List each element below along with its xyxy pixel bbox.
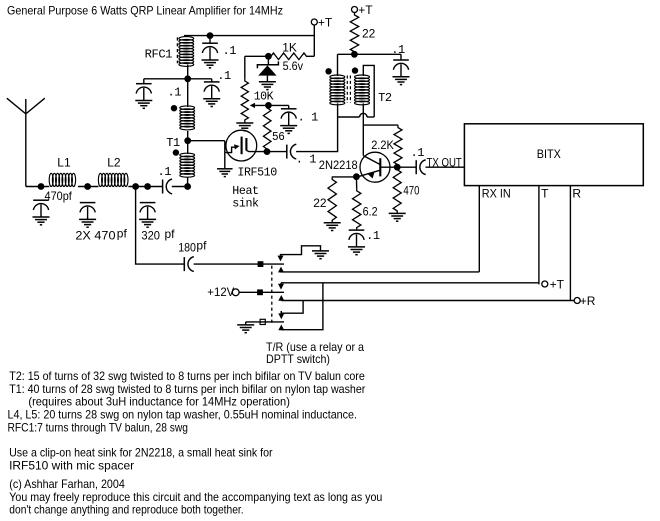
relay pole3 up contact: [278, 311, 284, 319]
terminal +T relay: [542, 281, 548, 287]
svg-text:22: 22: [313, 196, 327, 210]
label +T 2: [358, 3, 373, 17]
node emitter: [353, 173, 360, 180]
node J3: [132, 183, 139, 190]
wire drain to cap: [267, 151, 287, 153]
svg-text:R: R: [572, 187, 581, 201]
label T/R: [266, 340, 364, 366]
ground 22 emitter: [324, 223, 341, 231]
label RX IN: [482, 187, 511, 201]
label L1: [57, 155, 71, 169]
svg-text:+R: +R: [580, 294, 596, 308]
label +T relay: [550, 278, 565, 292]
svg-text:T2: 15 of turns of 32 swg twis: T2: 15 of turns of 32 swg twisted to 8 t…: [9, 369, 365, 383]
node zener: [265, 53, 272, 60]
svg-text:BITX: BITX: [537, 147, 561, 161]
svg-text:sink: sink: [232, 197, 259, 211]
wire RFC1 to T1: [187, 79, 189, 107]
relay pole1 up contact: [278, 246, 321, 262]
svg-text:470pf: 470pf: [45, 189, 73, 203]
capacitor .1 emitter: [348, 230, 365, 255]
label 1K: [282, 41, 297, 55]
capacitor 320pf: [139, 203, 156, 228]
label 2N2218: [319, 158, 358, 172]
wire net +R: [281, 300, 574, 302]
resistor 2.2K: [394, 125, 402, 167]
svg-text:(requires about 3uH inductance: (requires about 3uH inductance for 14MHz…: [28, 395, 290, 409]
node T1 center: [184, 137, 191, 144]
resistor 56: [263, 105, 271, 151]
ground IRF510 source: [217, 169, 233, 177]
heat sink note: [9, 446, 273, 473]
label .1 T1 input: [158, 165, 172, 179]
label 320 pf: [141, 227, 175, 243]
wire base to cap: [380, 166, 416, 168]
label 180pf: [178, 239, 207, 255]
label RFC1: [145, 48, 173, 62]
wire T2 right top loop: [363, 65, 374, 117]
svg-text:L4, L5: 20 turns 28 swg on nyl: L4, L5: 20 turns 28 swg on nylon tap was…: [8, 408, 358, 422]
wire +12V: [239, 291, 284, 293]
node IRF510 drain: [264, 148, 271, 155]
wire 180pf to relay: [194, 263, 284, 265]
resistor 22 emitter: [328, 177, 336, 223]
label +T 1: [318, 15, 333, 29]
T2 core dashed lines: [347, 76, 350, 104]
node wiper: [265, 102, 272, 109]
wire pole3 to +T link: [281, 283, 323, 330]
svg-text:. 1: . 1: [296, 152, 317, 166]
capacitor .1 bias bypass: [280, 109, 297, 134]
resistor 1K: [268, 53, 314, 60]
T2 phasing dot right: [352, 67, 358, 73]
relay pole2 up contact: [278, 283, 284, 290]
svg-text:.1: .1: [223, 44, 237, 58]
wire bias rail: [144, 78, 212, 80]
svg-text:L2: L2: [107, 155, 121, 169]
terminal +12V: [232, 289, 239, 296]
wire net +T: [281, 282, 539, 284]
T1 phasing dot bottom: [173, 149, 179, 155]
T2 right winding: [355, 75, 370, 156]
svg-text:L1: L1: [57, 155, 71, 169]
svg-text:T1: 40 turns of 28 swg twisted: T1: 40 turns of 28 swg twisted to 8 turn…: [9, 382, 365, 396]
label Heat sink: [232, 184, 259, 211]
potentiometer 10K: [241, 78, 248, 122]
svg-text:.1: .1: [168, 86, 182, 100]
svg-text:RX IN: RX IN: [482, 187, 511, 201]
resistor 470: [393, 167, 401, 213]
capacitor .1 T1 input: [163, 179, 173, 194]
svg-text:RFC1: RFC1: [145, 48, 173, 62]
label .1 bias bypass: [298, 111, 319, 125]
capacitor 180pf: [184, 257, 194, 272]
svg-text:DPTT switch): DPTT switch): [266, 352, 330, 366]
label 22 supply: [362, 27, 376, 41]
inductor L1: [49, 173, 75, 186]
label L2: [107, 155, 121, 169]
pin T: [538, 186, 540, 285]
capacitor .1 rail bypass: [202, 36, 219, 68]
label 2X 470pf: [75, 226, 127, 242]
label T: [541, 187, 549, 201]
label 5.6v: [283, 59, 303, 73]
svg-text:2X 470: 2X 470: [75, 229, 115, 243]
svg-text:.1: .1: [158, 165, 172, 179]
square node pole1: [258, 261, 264, 267]
ground pole1: [312, 251, 329, 259]
terminal +R: [574, 298, 580, 304]
node RFC1 bottom: [184, 75, 191, 82]
label BITX: [537, 147, 561, 161]
label 22 emitter: [313, 196, 327, 210]
notes text: [8, 369, 366, 435]
svg-text:T1: T1: [166, 136, 180, 150]
label .1 rail bypass: [223, 44, 237, 58]
wire wiper to cap: [268, 105, 288, 108]
svg-text:470: 470: [403, 184, 419, 198]
svg-text:1K: 1K: [282, 41, 297, 55]
wire RFC1 top rail: [184, 35, 314, 37]
wire collector to 2.2K: [363, 124, 398, 126]
svg-text:RFC1:7 turns through TV balun,: RFC1:7 turns through TV balun, 28 swg: [8, 421, 189, 435]
node J1: [38, 183, 45, 190]
node 22 bottom: [351, 51, 358, 58]
label 10K: [254, 89, 275, 103]
square node pole3 open: [260, 319, 265, 324]
svg-text:180: 180: [178, 241, 196, 255]
antenna: [7, 98, 45, 186]
svg-text:(c) Ashhar Farhan, 2004: (c) Ashhar Farhan, 2004: [9, 477, 125, 491]
transistor Q1 IRF510: [225, 130, 267, 168]
node T1 bottom: [184, 183, 191, 190]
node J4: [144, 183, 151, 190]
node J2: [84, 183, 91, 190]
ground pole3: [237, 322, 254, 333]
svg-text:10K: 10K: [254, 89, 275, 103]
wire pole3: [246, 321, 284, 323]
relay pole2 down contact: [278, 295, 284, 301]
T1 top winding: [180, 106, 195, 141]
svg-text:5.6v: 5.6v: [283, 59, 303, 73]
label .1 left bypass: [168, 86, 182, 100]
capacitor 2X470pf: [79, 203, 96, 228]
label 6.2: [363, 205, 378, 219]
label 56: [272, 130, 285, 144]
wire emitter to 22: [332, 176, 357, 178]
svg-text:+12V: +12V: [207, 285, 234, 299]
label R: [572, 187, 581, 201]
label T1: [166, 136, 180, 150]
svg-text:General Purpose 6 Watts QRP Li: General Purpose 6 Watts QRP Linear Ampli…: [7, 4, 283, 18]
label .1 T2 bypass: [391, 43, 405, 57]
svg-text:.1: .1: [366, 229, 380, 243]
wire L1 to L2: [78, 186, 99, 188]
svg-text:T: T: [541, 187, 549, 201]
wire T1 to IRF510 gate: [188, 140, 225, 142]
svg-text:pf: pf: [117, 226, 128, 240]
inductor RFC1: [179, 37, 194, 79]
10K wiper arrow: [250, 103, 269, 108]
label .1 right bypass: [217, 69, 231, 83]
svg-text:56: 56: [272, 130, 285, 144]
wire cap to T2 tap: [296, 117, 338, 152]
svg-text:.1: .1: [411, 146, 425, 160]
resistor 6.2: [353, 177, 361, 230]
T2 left winding: [330, 75, 345, 117]
label IRF510: [237, 166, 277, 180]
label 2.2K: [371, 138, 394, 152]
svg-text:pf: pf: [165, 227, 176, 241]
svg-text:don't change anything and repr: don't change anything and reproduce both…: [9, 503, 243, 517]
svg-text:.1: .1: [391, 43, 405, 57]
ground 10K: [236, 123, 253, 131]
title text: [7, 4, 283, 18]
wire cap to BITX: [426, 166, 465, 168]
svg-text:pf: pf: [196, 239, 207, 253]
label +12V: [207, 285, 234, 299]
svg-text:.1: .1: [217, 69, 231, 83]
label T2: [378, 91, 392, 105]
svg-text:T2: T2: [378, 91, 392, 105]
T1 bottom winding: [180, 141, 195, 187]
wire T2 top rail: [338, 54, 402, 76]
capacitor .1 right bypass: [203, 79, 220, 107]
label 470pf: [45, 189, 73, 203]
relay pole1 down contact: [278, 267, 479, 273]
capacitor .1 drain coupling: [287, 144, 297, 159]
label TX OUT: [427, 155, 463, 169]
svg-text:320: 320: [141, 229, 160, 243]
block BITX: [464, 124, 643, 186]
wire T2 tap horizontal: [338, 113, 375, 117]
T2 phasing dot left: [325, 68, 331, 74]
svg-text:+T: +T: [550, 278, 565, 292]
RFC1 core dashed line: [176, 37, 178, 63]
square node pole2: [257, 289, 263, 295]
relay dashed link: [271, 266, 273, 323]
terminal +T 1: [311, 19, 317, 56]
copyright text: [9, 477, 382, 516]
T1 phasing dot top: [171, 105, 177, 111]
svg-text:. 1: . 1: [298, 111, 319, 125]
wire J3 down: [136, 187, 185, 265]
pin R: [569, 186, 571, 301]
svg-text:+T: +T: [358, 3, 373, 17]
terminal +T 2: [352, 7, 358, 13]
capacitor .1 left bypass: [135, 79, 152, 109]
inductor L2: [98, 173, 128, 186]
ground 470: [389, 213, 406, 221]
ground zener: [259, 82, 276, 90]
transistor Q2 2N2218: [358, 152, 390, 182]
label .1 TX OUT: [411, 146, 425, 160]
label 470: [403, 184, 419, 198]
label .1 emitter: [366, 229, 380, 243]
capacitor 470pf: [33, 200, 50, 225]
svg-text:IRF510: IRF510: [237, 166, 277, 180]
wire pole2 to pole3 link: [281, 301, 303, 314]
wire 1K to 10K: [245, 56, 269, 78]
node RFC1 rail: [207, 32, 214, 39]
capacitor .1 TX OUT: [416, 160, 426, 175]
svg-text:2N2218: 2N2218: [319, 158, 358, 172]
wire L2 to cap: [128, 186, 162, 188]
capacitor .1 T2 bypass: [393, 60, 410, 85]
node base: [394, 164, 401, 171]
svg-text:2.2K: 2.2K: [371, 138, 394, 152]
label +R: [580, 294, 596, 308]
resistor 22 supply: [350, 13, 358, 55]
relay pole3 down contact: [278, 325, 284, 331]
zener diode 5.6v: [257, 56, 278, 82]
svg-text:+T: +T: [318, 15, 333, 29]
pin RX IN: [478, 186, 480, 272]
svg-text:IRF510 with mic spacer: IRF510 with mic spacer: [9, 459, 134, 473]
svg-text:6.2: 6.2: [363, 205, 378, 219]
wire cap to T1: [172, 186, 188, 188]
svg-text:22: 22: [362, 27, 376, 41]
svg-text:Use a clip-on heat sink for 2N: Use a clip-on heat sink for 2N2218, a sm…: [9, 446, 273, 460]
label .1 drain coupling: [296, 152, 317, 166]
wire antenna to L1: [26, 186, 49, 188]
